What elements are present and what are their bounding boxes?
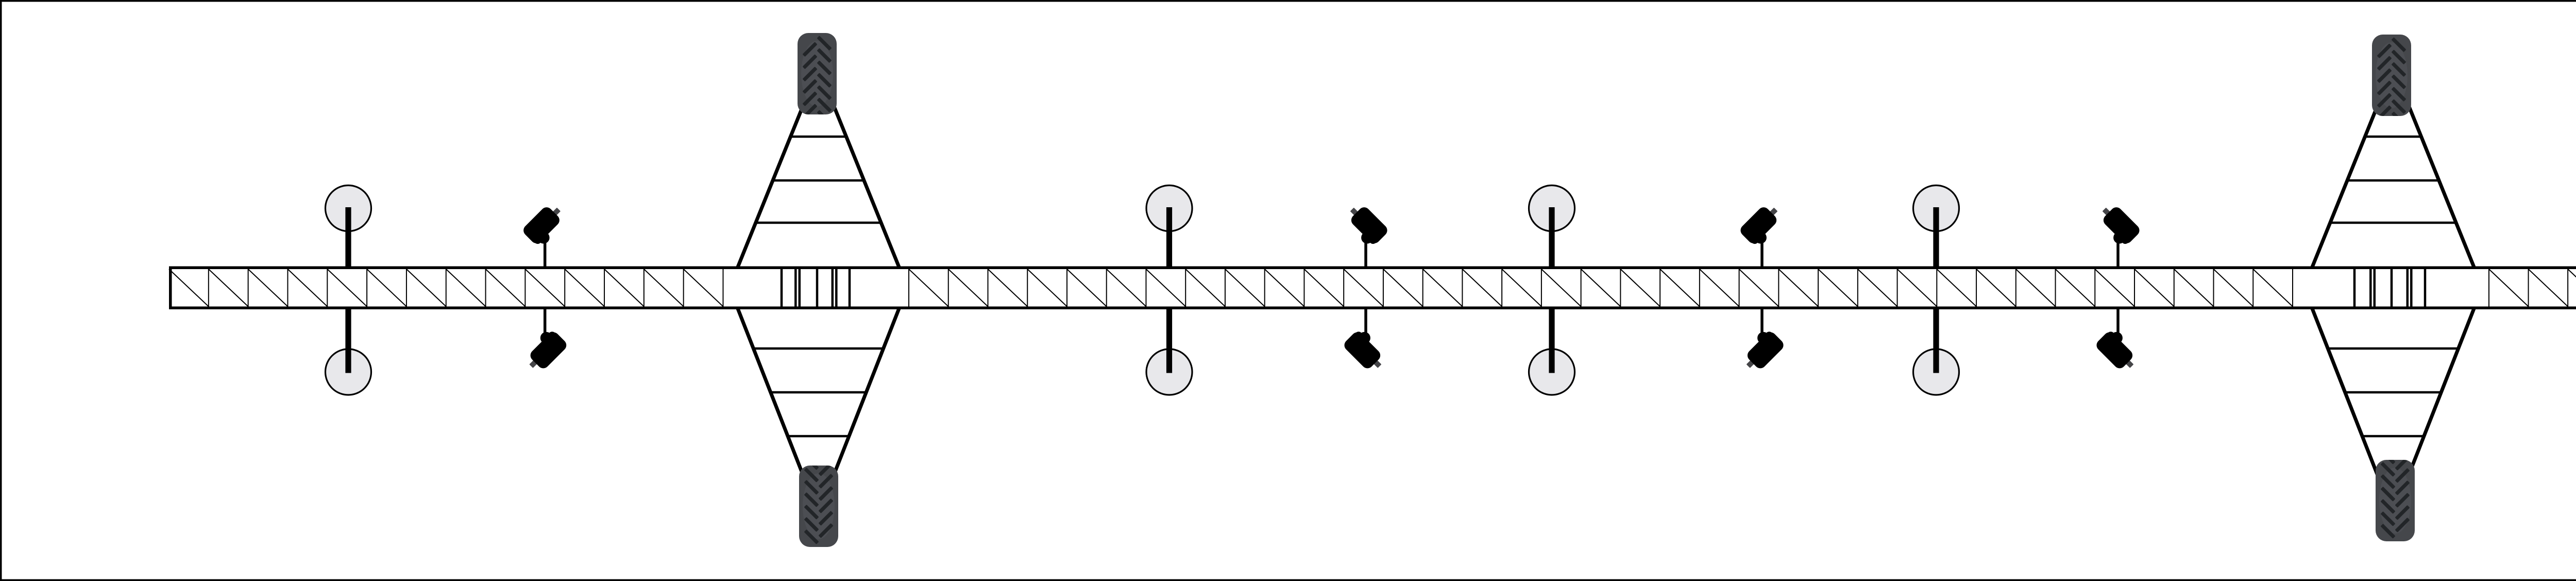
gauge wheel W4 top: [1913, 186, 1959, 268]
left wheel-frame bar section dividers: [723, 269, 909, 307]
gauge wheel W1 top: [326, 186, 371, 268]
opener K4 bottom: [2094, 308, 2135, 371]
main toolbar bar: [169, 267, 2576, 310]
opener K1 bottom: [528, 308, 569, 371]
right transport tire top: [2372, 35, 2411, 126]
left transport tire bottom: [799, 455, 838, 547]
gauge wheel W3 bottom: [1529, 308, 1575, 395]
toolbar lattice hatching - middle section: [909, 269, 2293, 307]
toolbar lattice hatching - right section: [2489, 269, 2576, 307]
main toolbar outline: [171, 268, 2576, 308]
right wheel frame upper cross braces: [2330, 137, 2456, 223]
left wheel frame upper cross braces: [756, 137, 881, 223]
left transport tire top: [798, 33, 837, 125]
gauge wheel W1 bottom: [326, 308, 371, 395]
gauge wheel W2 top: [1146, 186, 1192, 268]
right wheel frame upper legs: [2312, 99, 2475, 269]
gauge wheel W3 top: [1529, 186, 1575, 268]
left axle mount plates: [782, 269, 850, 307]
opener K4 top: [2101, 205, 2142, 268]
right axle mount plates: [2354, 269, 2425, 307]
opener K2 bottom: [1342, 308, 1383, 371]
right transport tire bottom: [2376, 450, 2415, 541]
right wheel frame lower cross braces: [2328, 348, 2458, 436]
left wheel frame lower legs: [737, 307, 900, 482]
toolbar lattice hatching - left section: [169, 269, 723, 307]
opener K2 top: [1349, 205, 1389, 268]
gauge wheel W2 bottom: [1146, 308, 1192, 395]
opener K3 bottom: [1745, 308, 1786, 371]
right wheel frame lower legs: [2312, 307, 2475, 482]
right wheel-frame bar section dividers: [2293, 269, 2489, 307]
opener K1 top: [521, 205, 562, 268]
gauge wheel W4 bottom: [1913, 308, 1959, 395]
left wheel frame lower cross braces: [753, 348, 883, 436]
left wheel frame upper legs: [737, 99, 900, 269]
opener K3 top: [1738, 205, 1779, 268]
